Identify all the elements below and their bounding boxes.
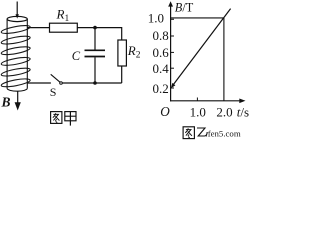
svg-text:2.0: 2.0 — [216, 104, 232, 119]
svg-text:0.6: 0.6 — [152, 45, 169, 60]
svg-text:0.4: 0.4 — [152, 61, 169, 76]
svg-text:B/T: B/T — [175, 0, 194, 14]
svg-text:R2: R2 — [127, 43, 141, 61]
svg-text:O: O — [160, 104, 170, 119]
svg-text:.fen5.com: .fen5.com — [206, 128, 241, 138]
svg-text:C: C — [72, 49, 81, 63]
svg-text:t/s: t/s — [237, 105, 249, 120]
svg-text:0.8: 0.8 — [152, 28, 168, 43]
svg-text:R1: R1 — [56, 7, 70, 25]
svg-text:1.0: 1.0 — [148, 11, 164, 26]
svg-text:0.2: 0.2 — [152, 81, 168, 96]
svg-text:1.0: 1.0 — [190, 104, 206, 119]
svg-text:B: B — [1, 95, 11, 110]
svg-text:S: S — [50, 85, 57, 99]
